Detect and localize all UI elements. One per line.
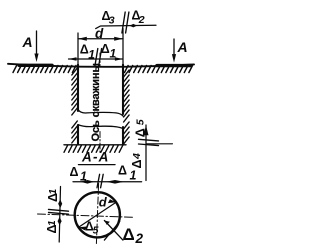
svg-text:Ось скважины: Ось скважины [90, 63, 102, 141]
svg-text:1: 1 [88, 48, 95, 62]
bottom hatching [64, 145, 123, 152]
borehole right wall extension [122, 29, 124, 65]
bottom line [64, 144, 126, 146]
svg-text:Δ: Δ [118, 164, 127, 178]
label Δ1 rotated top (left callout) [46, 189, 60, 202]
delta3-delta2 callout line [96, 25, 156, 28]
wall hatching lower right [124, 122, 130, 144]
borehole axis centerline upper [99, 53, 101, 67]
delta1 vertical callout line (left of circle) [59, 187, 60, 243]
d dimension line [78, 38, 123, 40]
svg-text:5: 5 [93, 225, 99, 237]
lower break line [78, 125, 123, 129]
section plane bar left [19, 64, 52, 67]
diameter dimension line [79, 202, 117, 227]
svg-text:1: 1 [47, 189, 59, 195]
svg-text:Δ: Δ [130, 160, 144, 169]
tick marks (left vertical callout) [49, 209, 69, 211]
svg-text:4: 4 [131, 153, 143, 160]
borehole axis centerline lower [99, 132, 101, 155]
svg-text:1: 1 [130, 169, 137, 183]
svg-text:A: A [22, 34, 33, 50]
lens arrow on callout [130, 24, 138, 28]
delta1 callout line (section) [73, 181, 142, 183]
lens arrow up (left callout) [58, 199, 62, 208]
wall hatching lower left [72, 121, 78, 143]
ground hatching right [125, 66, 193, 73]
svg-text:Δ: Δ [70, 165, 79, 179]
lens arrow down (left callout) [58, 217, 62, 226]
section arrow A left [36, 31, 38, 54]
svg-text:3: 3 [109, 15, 115, 27]
upper break line [78, 110, 123, 117]
horizontal centerline (section) [38, 214, 134, 217]
tick marks (delta5 callout) [139, 139, 159, 141]
lower left wall [77, 125, 79, 145]
vertical centerline (section) [96, 184, 98, 244]
wall hatching upper left [72, 68, 78, 115]
svg-text:5: 5 [135, 119, 147, 125]
borehole left wall [77, 65, 79, 111]
ground hatching left [13, 66, 76, 73]
delta5 callout vertical line [145, 125, 147, 181]
svg-text:A: A [177, 39, 188, 55]
А-А underline [79, 164, 116, 166]
tick marks (section top callout) [97, 174, 100, 188]
tick marks (delta3 callout) [122, 12, 125, 33]
svg-text:d: d [99, 194, 108, 209]
svg-text:1: 1 [110, 47, 117, 61]
tick marks on axis (top callout) [95, 49, 98, 67]
delta1 callout line top [69, 58, 123, 60]
bottom level extension line [146, 143, 173, 145]
svg-text:1: 1 [80, 170, 87, 184]
lens arrow left (section callout) [80, 180, 94, 184]
label Δ4 (rotated) [130, 153, 144, 169]
borehole left wall extension [77, 33, 79, 65]
delta2 leader with cross mark [104, 221, 123, 241]
lower right wall [122, 127, 124, 145]
svg-text:Δ: Δ [123, 225, 135, 244]
section plane bar right [157, 64, 191, 67]
svg-text:1: 1 [46, 220, 58, 226]
label Δ5 (rotated) [134, 119, 148, 137]
svg-text:Δ: Δ [134, 128, 148, 137]
svg-text:2: 2 [138, 14, 145, 26]
wall hatching upper right [124, 70, 130, 122]
lens arrow right (section callout) [106, 180, 124, 184]
borehole right wall [122, 65, 124, 114]
svg-text:Δ: Δ [101, 42, 110, 56]
ground line [8, 64, 194, 67]
svg-text:2: 2 [135, 231, 144, 246]
circle (borehole section) [75, 192, 120, 237]
label Δ1 rotated bottom (left callout) [45, 220, 59, 233]
svg-text:А-А: А-А [81, 150, 110, 165]
section arrow A right [173, 39, 175, 56]
